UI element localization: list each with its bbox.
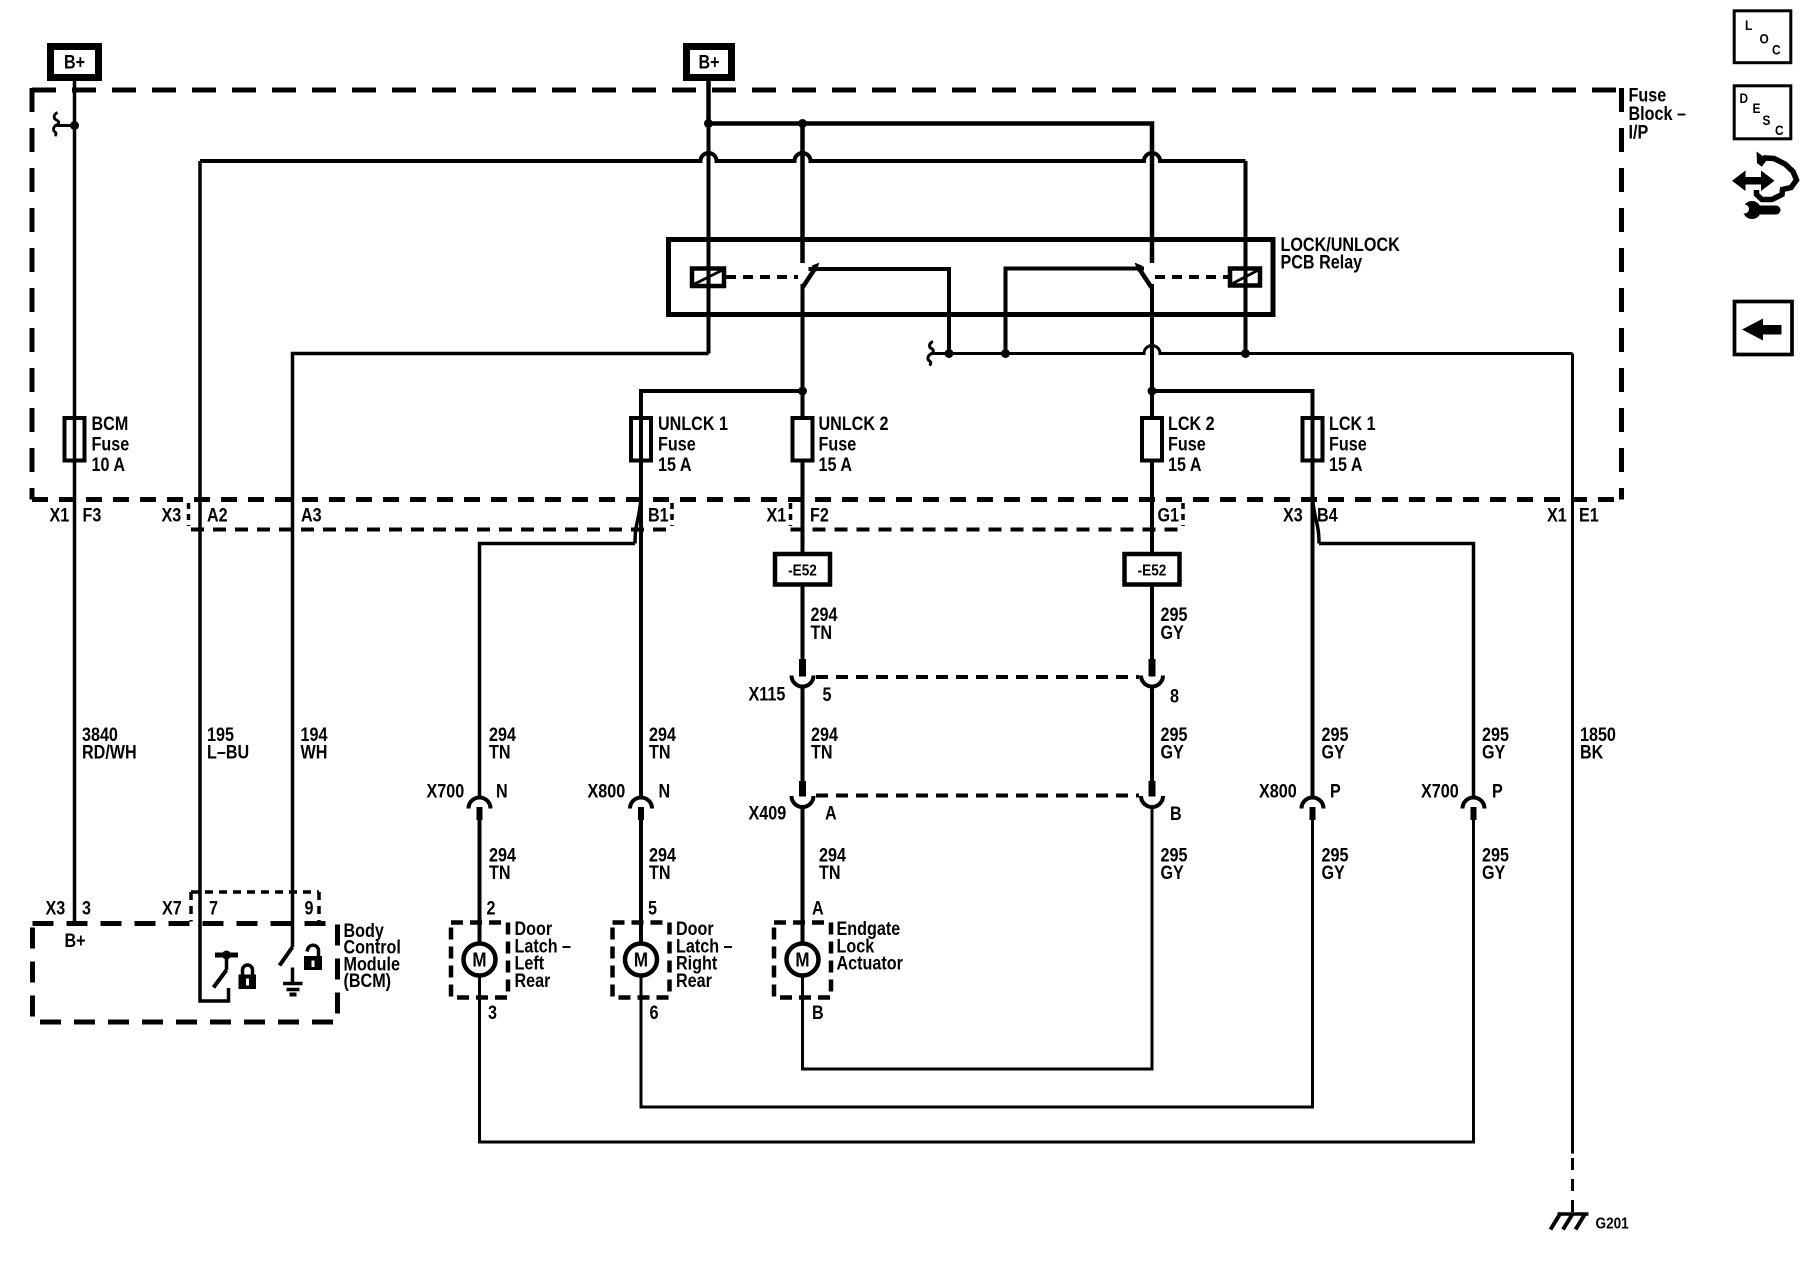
wire E1 dashed to G201	[1571, 1158, 1574, 1213]
svg-text:X1: X1	[1547, 504, 1567, 526]
svg-text:G201: G201	[1596, 1216, 1629, 1233]
svg-text:X3: X3	[1283, 504, 1303, 526]
wire label 295 GY upper right	[1161, 604, 1188, 644]
svg-text:X409: X409	[749, 802, 787, 824]
connector separator B1	[670, 503, 674, 526]
pin label X1 E1	[1547, 504, 1599, 526]
junction dot UNLCK branch	[798, 387, 807, 396]
svg-text:C: C	[1775, 122, 1784, 138]
wire E1 ground drop	[1571, 354, 1574, 1154]
svg-text:M: M	[472, 948, 486, 971]
svg-text:7: 7	[209, 897, 218, 919]
dashed link right switch to right coil	[1155, 275, 1228, 279]
component E52 right box	[1125, 554, 1180, 585]
motor M1 door latch left rear	[451, 923, 508, 998]
svg-text:GY: GY	[1161, 622, 1185, 644]
wire jog B4 to right branch	[1313, 498, 1320, 544]
splice hook on B+1 wire	[54, 113, 75, 137]
fuse LCK 2 15A	[1142, 413, 1215, 476]
svg-text:O: O	[1760, 31, 1769, 47]
label Body Control Module (BCM)	[344, 920, 401, 992]
svg-text:GY: GY	[1161, 862, 1185, 884]
wire X115-8 to X409-B	[1150, 686, 1154, 782]
svg-text:B+: B+	[65, 930, 86, 952]
pin label X1 F2	[767, 504, 830, 526]
svg-text:Actuator: Actuator	[837, 952, 903, 974]
svg-text:Fuse: Fuse	[1168, 433, 1206, 455]
svg-text:TN: TN	[811, 741, 833, 763]
icon closed padlock	[239, 965, 257, 989]
svg-text:LCK 2: LCK 2	[1168, 413, 1215, 435]
wire left switch common down to UNLCK junction	[801, 284, 805, 418]
svg-text:-E52: -E52	[1138, 563, 1167, 580]
wire label 294 TN lower col4	[489, 844, 516, 883]
svg-text:BCM: BCM	[92, 413, 129, 435]
relay coil K-left	[692, 269, 724, 287]
svg-text:X3: X3	[46, 897, 66, 919]
svg-text:M: M	[634, 948, 648, 971]
BCM internal ground	[283, 968, 303, 995]
svg-text:GY: GY	[1322, 741, 1346, 763]
wire UNLCK branch to UNLCK1 fuse	[641, 391, 803, 798]
svg-text:(BCM): (BCM)	[344, 970, 392, 992]
BCM pin row labels X3 3 X7 7 9	[46, 897, 314, 919]
svg-text:Fuse: Fuse	[1329, 433, 1367, 455]
connector X409 pin A	[749, 781, 837, 824]
connector X115 pin 8	[1141, 659, 1163, 687]
wire left relay switch feed	[800, 124, 805, 264]
svg-text:TN: TN	[489, 862, 511, 884]
splice hook on ground bus	[928, 342, 933, 366]
wire label 295 GY col9	[1161, 724, 1188, 763]
svg-text:BK: BK	[1580, 741, 1604, 763]
wire ground bus to E1 (with hop)	[931, 346, 1573, 354]
fuse LCK 1 15A	[1303, 413, 1376, 476]
wire right relay coil drop	[1244, 161, 1248, 354]
svg-text:S: S	[1763, 112, 1771, 128]
label X115 5	[749, 683, 832, 705]
connector X700 P	[1421, 780, 1503, 820]
connector X409 pin B	[1141, 781, 1182, 824]
svg-text:15 A: 15 A	[1168, 454, 1202, 476]
svg-text:B: B	[812, 1002, 824, 1024]
svg-text:Rear: Rear	[515, 970, 551, 992]
dashed connector line X115	[816, 675, 1139, 679]
svg-text:M: M	[795, 948, 809, 971]
svg-text:Fuse: Fuse	[658, 433, 696, 455]
wire G1 through E52 to X115	[1150, 460, 1154, 660]
pin label X1 F3	[50, 504, 102, 526]
junction dot ground bus at left contact	[945, 349, 954, 358]
wire B+2 stub	[706, 81, 711, 124]
svg-text:N: N	[659, 780, 671, 802]
wire B4 branch to X700 P	[1319, 544, 1474, 799]
svg-text:5: 5	[823, 684, 832, 706]
icon diagnostic arrows and wrench	[1732, 152, 1797, 220]
svg-text:B1: B1	[648, 504, 669, 526]
fuse UNLCK 2 15A	[793, 413, 889, 476]
wire X115-5 to X409-A	[801, 686, 805, 782]
svg-text:15 A: 15 A	[1329, 454, 1363, 476]
svg-text:TN: TN	[819, 862, 841, 884]
svg-text:PCB Relay: PCB Relay	[1281, 251, 1363, 273]
wire label 194 WH	[301, 724, 328, 763]
svg-text:P: P	[1330, 780, 1341, 802]
svg-text:TN: TN	[811, 622, 833, 644]
motor M2 door latch right rear	[613, 923, 670, 998]
wire label 294 TN col4	[489, 724, 516, 763]
svg-text:WH: WH	[301, 741, 328, 763]
connector separator G1	[1181, 503, 1185, 526]
svg-text:TN: TN	[649, 741, 671, 763]
wire motor2 return loop	[641, 810, 1313, 1107]
B+ terminal 1 box	[51, 47, 99, 78]
wire label 294 TN col5	[649, 724, 676, 763]
wire A3 to left coil bottom	[293, 354, 709, 948]
svg-text:GY: GY	[1482, 741, 1506, 763]
wire right switch common down to LCK junction	[1150, 284, 1154, 418]
junction dot LCK branch	[1148, 387, 1157, 396]
BCM box dashed	[33, 924, 338, 1023]
wire label 195 L-BU	[207, 724, 249, 763]
wire label 295 GY lower col9	[1161, 844, 1188, 883]
svg-text:GY: GY	[1161, 741, 1185, 763]
wire label 294 TN lower col6	[819, 844, 846, 883]
svg-text:B+: B+	[64, 51, 85, 73]
svg-text:GY: GY	[1322, 862, 1346, 884]
fuse UNLCK 1 15A	[631, 413, 728, 476]
svg-text:3: 3	[82, 897, 91, 919]
svg-text:Rear: Rear	[676, 970, 712, 992]
BCM unlock switch blade	[280, 947, 293, 966]
wire X409-A to motor3	[801, 807, 805, 944]
svg-text:E: E	[1753, 100, 1761, 116]
svg-text:G1: G1	[1158, 504, 1180, 526]
svg-text:L–BU: L–BU	[207, 741, 249, 763]
svg-text:8: 8	[1170, 685, 1179, 707]
svg-text:2: 2	[487, 897, 496, 919]
svg-text:X115: X115	[749, 683, 786, 705]
svg-text:B+: B+	[698, 51, 719, 73]
junction dot on B+1 wire	[70, 121, 79, 130]
connector dotted row left	[191, 528, 672, 532]
svg-text:X3: X3	[162, 504, 182, 526]
icon back arrow box	[1735, 302, 1793, 355]
junction dot B+ bus at left switch feed	[798, 119, 807, 128]
wire F2 through E52 to X115	[801, 460, 805, 660]
wire motor1 return loop	[480, 810, 1474, 1142]
wire left relay contact to ground bus	[809, 269, 950, 354]
pin label X3 B4	[1283, 504, 1338, 526]
icon open padlock	[304, 945, 322, 970]
wire LCK branch to LCK1 fuse	[1152, 391, 1313, 798]
wire B1 branch to X700 door latch left	[480, 544, 636, 799]
wire motor3 B return loop	[803, 807, 1153, 1069]
dashed connector line X409	[816, 794, 1139, 798]
relay box LOCK/UNLOCK PCB Relay	[669, 240, 1274, 315]
connector separator X3	[187, 503, 191, 526]
connector X115 pin 5	[792, 659, 814, 687]
wire label 295 GY lower col11	[1322, 844, 1349, 883]
connector X700 N	[427, 780, 508, 820]
svg-text:Fuse: Fuse	[92, 433, 130, 455]
svg-text:A2: A2	[207, 504, 228, 526]
label Fuse Block - I/P	[1629, 84, 1687, 143]
wire X700-N to motor1	[478, 810, 482, 944]
wire label 3840 RD/WH	[82, 724, 137, 763]
connector X7 dotted outline	[191, 892, 319, 922]
svg-text:6: 6	[650, 1002, 659, 1024]
wire label 295 GY col11	[1322, 724, 1349, 763]
svg-text:LCK 1: LCK 1	[1329, 413, 1376, 435]
fuse block I/P dashed boundary	[32, 88, 1622, 500]
junction dot ground bus at right contact riser	[1001, 349, 1010, 358]
svg-text:I/P: I/P	[1629, 121, 1649, 143]
wire label 295 GY col12	[1482, 724, 1509, 763]
wire X800-N to motor2	[639, 810, 643, 944]
svg-text:3: 3	[488, 1002, 497, 1024]
junction dot B+ bus at coil feed	[704, 119, 713, 128]
left relay switch blade	[803, 263, 820, 288]
svg-text:-E52: -E52	[788, 563, 817, 580]
B+ terminal 2 box	[687, 47, 732, 78]
icon DESC box	[1734, 86, 1791, 139]
fuse BCM 10A	[65, 413, 130, 476]
connector separator F2	[789, 503, 793, 526]
dashed link left coil to left switch	[726, 275, 798, 279]
icon LOC box	[1734, 11, 1791, 63]
svg-text:X800: X800	[1259, 780, 1297, 802]
svg-text:B: B	[1170, 803, 1182, 825]
svg-text:L: L	[1745, 17, 1752, 33]
wire left relay coil feed	[707, 124, 711, 354]
wire label 1850 BK	[1580, 724, 1616, 763]
wire label 294 TN lower col5	[649, 844, 676, 883]
label LOCK/UNLOCK PCB Relay	[1281, 234, 1401, 273]
component E52 left box	[775, 554, 830, 585]
svg-text:E1: E1	[1579, 504, 1599, 526]
svg-text:X800: X800	[588, 780, 626, 802]
svg-text:F2: F2	[810, 504, 829, 526]
svg-text:A3: A3	[301, 504, 322, 526]
svg-text:15 A: 15 A	[819, 454, 853, 476]
svg-text:UNLCK 2: UNLCK 2	[819, 413, 889, 435]
svg-text:9: 9	[305, 897, 314, 919]
motor M3 endgate lock actuator	[774, 923, 831, 998]
wire A2 bus to right relay coil (with hops)	[200, 153, 1246, 161]
svg-text:X700: X700	[1421, 780, 1459, 802]
BCM lock switch blade	[214, 970, 227, 988]
BCM lock switch contact bar	[215, 951, 238, 971]
svg-text:TN: TN	[489, 741, 511, 763]
pin label X3 A2	[162, 504, 228, 526]
label Door Latch Left Rear	[515, 918, 572, 991]
svg-text:C: C	[1772, 42, 1781, 58]
svg-text:X7: X7	[162, 897, 182, 919]
connector X800 P	[1259, 780, 1341, 820]
svg-text:X1: X1	[767, 504, 787, 526]
wire label 294 TN col6	[811, 724, 838, 763]
wire right relay contact riser	[1006, 269, 1145, 354]
wire jog B1 to left branch	[635, 498, 641, 544]
svg-text:A: A	[825, 802, 837, 824]
svg-text:B4: B4	[1317, 504, 1338, 526]
svg-text:X700: X700	[427, 780, 465, 802]
svg-text:10 A: 10 A	[92, 454, 126, 476]
ground G201 symbol	[1551, 1214, 1589, 1230]
connector dotted row right	[791, 528, 1184, 532]
svg-text:P: P	[1492, 780, 1503, 802]
svg-text:TN: TN	[649, 862, 671, 884]
svg-text:RD/WH: RD/WH	[82, 741, 137, 763]
connector X800 N	[588, 780, 671, 820]
wire B+1 vertical 3840 feed	[73, 81, 77, 924]
right relay switch blade	[1135, 263, 1152, 288]
relay coil K-right	[1230, 269, 1260, 286]
wire A2 vertical into BCM lock switch	[200, 161, 229, 1001]
svg-text:F3: F3	[83, 504, 102, 526]
svg-text:UNLCK 1: UNLCK 1	[658, 413, 728, 435]
svg-text:15 A: 15 A	[658, 454, 692, 476]
svg-text:A: A	[812, 897, 824, 919]
svg-text:X1: X1	[50, 504, 70, 526]
wire label 294 TN upper left	[811, 604, 838, 644]
svg-text:5: 5	[648, 897, 657, 919]
label Door Latch Right Rear	[676, 918, 733, 991]
wire label 295 GY lower col12	[1482, 844, 1509, 883]
svg-text:D: D	[1740, 90, 1749, 106]
label Endgate Lock Actuator	[837, 918, 903, 974]
wire bus B+ horizontal to right relay switch feed	[709, 124, 1153, 264]
junction dot ground bus at right coil	[1241, 349, 1250, 358]
svg-text:Fuse: Fuse	[819, 433, 857, 455]
svg-text:GY: GY	[1482, 862, 1506, 884]
svg-text:N: N	[496, 780, 508, 802]
